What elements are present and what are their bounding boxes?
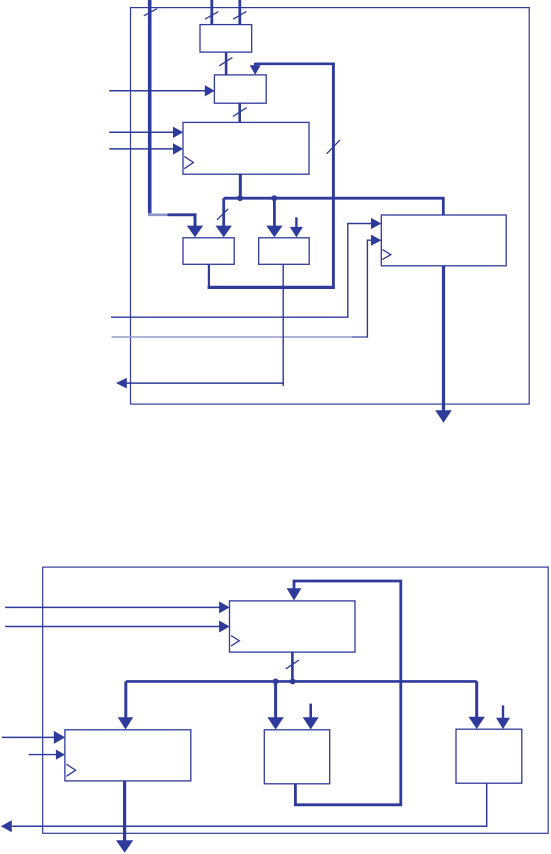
feedback wire: box4 output up to box2 (thick loop): [208, 265, 210, 289]
block box9 (middle bottom diagram): [264, 730, 329, 784]
arrowhead box6 input b: [371, 235, 381, 246]
wire: box5 output down: [282, 264, 284, 386]
stub arrow into box10 second input: [502, 705, 504, 718]
block box10 (right bottom diagram): [456, 729, 522, 783]
wire: left input b into box7: [5, 626, 219, 628]
bus slash on clock line: [144, 9, 157, 16]
wire line2 riser into box6 input b: [367, 240, 371, 337]
bus drop into box10 first input: [475, 681, 478, 717]
arrowhead pointing left bottom: [1, 820, 12, 832]
block box6 (right register): [381, 215, 506, 266]
arrowhead pointing left: [116, 378, 127, 389]
block box2 (PC mux): [214, 75, 266, 103]
arrowhead box8 output: [116, 840, 133, 853]
wire: left input a into box7: [5, 606, 219, 608]
bus: box7 output down: [291, 652, 294, 681]
bus: box1 to box2: [225, 52, 228, 75]
block box5: [259, 238, 310, 264]
wire: thick clock/control line from top into register file write port: [148, 0, 152, 213]
bus: bottom horizontal distribution: [126, 680, 477, 683]
wire: output line to left arrow: [127, 382, 284, 384]
arrowhead stub box10: [496, 718, 510, 729]
bus slash box7 output: [286, 660, 299, 669]
clock chevron box6: [382, 250, 390, 260]
arrowhead box3 input b: [173, 143, 183, 154]
junction dot left bottom: [273, 679, 279, 685]
arrowhead box8 input a: [54, 731, 65, 744]
bus: box6 output big down arrow: [442, 266, 445, 411]
bus: horizontal distribution: [224, 197, 445, 200]
stub arrow into box5 second input: [295, 217, 297, 227]
block box8 (left register bottom diagram): [65, 730, 191, 781]
wire: left input b into box8: [29, 754, 57, 756]
arrowhead into box9 first input: [267, 717, 283, 729]
bus slash on drop: [217, 209, 228, 220]
bus: box8 output big down arrow: [123, 781, 126, 841]
block box7 (top register bottom diagram): [230, 601, 356, 652]
junction dot left: [237, 195, 243, 201]
frame: top datapath boundary: [131, 8, 530, 405]
feedback loop box9 output to box7 top: [294, 581, 401, 805]
arrowhead box3 input a: [173, 127, 183, 138]
wire line1 into box6 input a: [111, 224, 371, 318]
bus drop into box4 second input: [222, 198, 225, 226]
wire: left input into box2: [109, 90, 205, 92]
bus drop into box6 top: [442, 198, 445, 215]
arrowhead feedback into box7 top: [287, 588, 302, 600]
wire: left input a into box3: [109, 131, 173, 133]
arrowhead box8 input b: [56, 750, 65, 760]
arrowhead into box4 top-left: [187, 226, 203, 238]
bus slash input A: [205, 12, 218, 20]
wire: left input b into box3: [109, 148, 173, 150]
arrowhead stub box9: [303, 717, 319, 729]
arrowhead feedback into box2 top: [250, 65, 261, 75]
arrowhead box7 input a: [219, 601, 230, 613]
bus drop into box5 first input: [273, 198, 276, 226]
frame: bottom datapath boundary: [43, 567, 549, 833]
bus drop into box8 top: [124, 681, 127, 717]
wire: box10 output down and left to arrow: [12, 783, 487, 826]
bus slash box1-box2: [219, 57, 232, 65]
wire line2 horizontal (light): [112, 336, 353, 338]
junction dot right: [271, 195, 277, 201]
wire: left input a into box8: [2, 736, 55, 738]
block box4: [183, 238, 234, 264]
bus drop into box9 first input: [274, 681, 277, 717]
block box1 (adder/mux): [200, 25, 252, 52]
bus input A (vertical into box1): [210, 0, 213, 25]
arrowhead into box5 first input: [266, 226, 282, 238]
arrowhead into box4 second input: [216, 226, 232, 238]
block box3 (instruction register): [183, 122, 309, 174]
bus slash on feedback vertical: [327, 140, 340, 154]
bus: box2 to box3: [238, 103, 241, 122]
arrowhead box7 input b: [219, 621, 230, 633]
arrowhead box6 input a: [371, 218, 381, 229]
clock chevron box3: [184, 156, 193, 168]
clock chevron box8: [66, 764, 75, 776]
bus slash input B: [233, 12, 246, 20]
bus: box3 output down: [239, 174, 242, 198]
arrowhead box6 output: [435, 410, 452, 423]
arrowhead into box2 left: [205, 85, 215, 96]
junction dot right bottom: [290, 679, 296, 685]
bus slash box2-box3: [233, 108, 247, 117]
stub arrow into box9 second input: [309, 704, 312, 718]
bus input B (vertical into box1): [238, 0, 241, 25]
arrowhead into box10 first input: [469, 717, 485, 729]
arrowhead into box8 top: [118, 717, 133, 729]
clock chevron box7: [231, 636, 239, 646]
arrowhead stub box5: [290, 227, 303, 237]
